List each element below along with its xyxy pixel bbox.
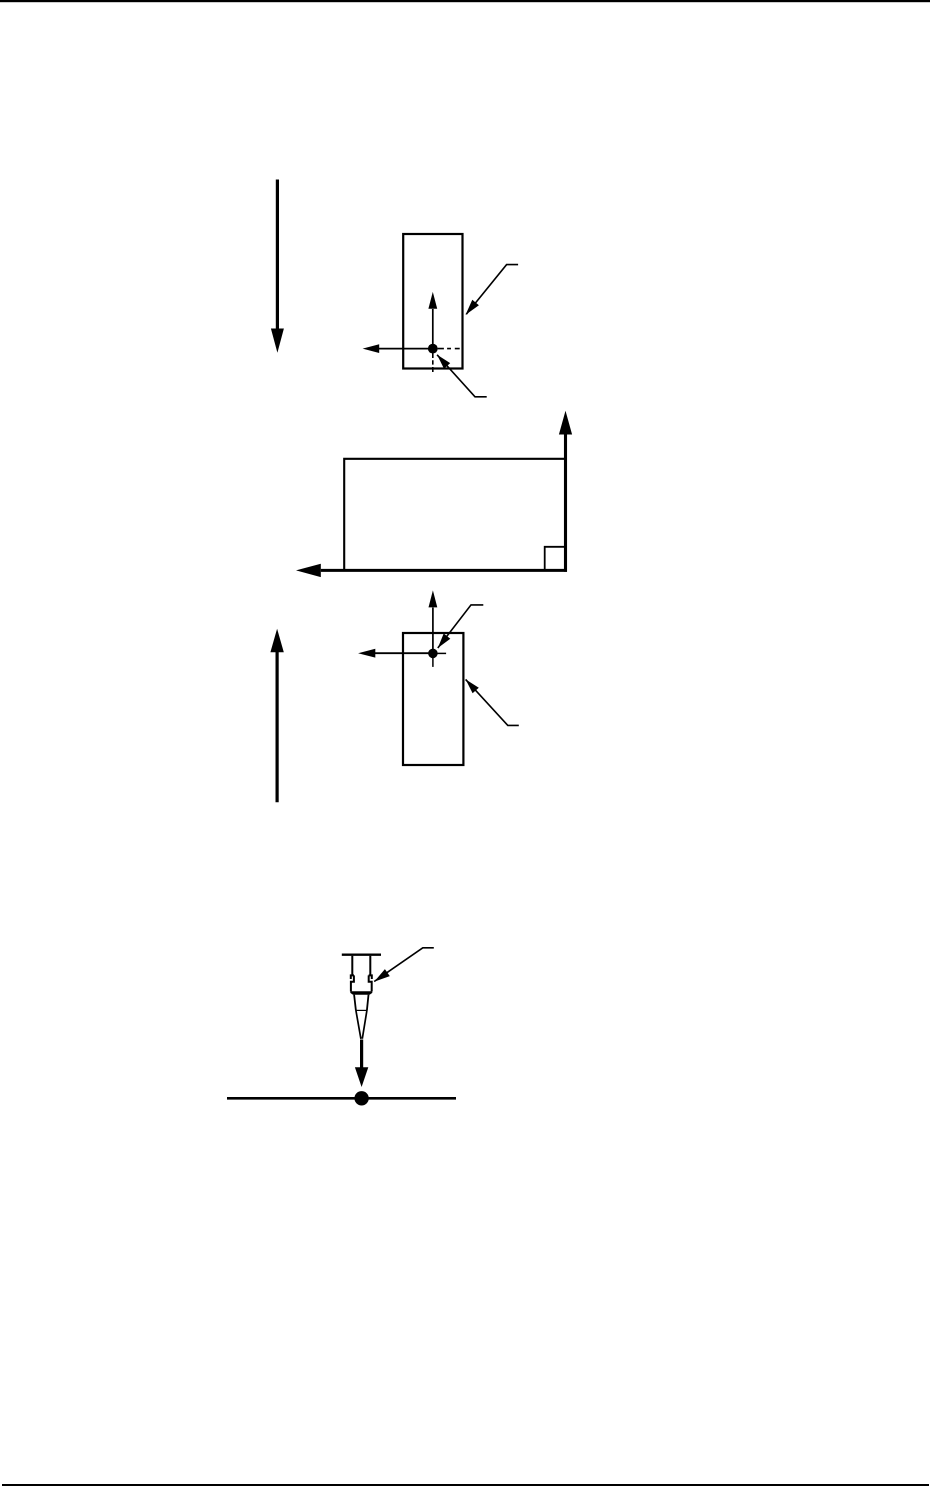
left axis arrow from mount point (upper, shaft) [379, 348, 433, 350]
board Y axis thick arrow (head) [559, 411, 572, 435]
mount point dot (lower diagram) [428, 649, 438, 659]
bottom border line [2, 1484, 929, 1486]
nozzle collar band [350, 991, 372, 994]
left axis arrow from mount point (lower, shaft) [375, 652, 433, 654]
nozzle flange [342, 954, 381, 956]
left axis arrow from mount point (lower, head) [358, 649, 375, 658]
component outline rectangle (upper diagram) [403, 234, 462, 369]
nozzle taper upper section [354, 995, 368, 1011]
up axis arrow from mount point (upper, shaft) [432, 309, 434, 349]
right-angle origin marker square [545, 547, 565, 570]
nozzle tip cone [356, 1010, 367, 1038]
leader line to component outline (lower) [466, 679, 519, 725]
board X axis thick arrow (head) [296, 564, 321, 577]
leader arrowhead to component outline (lower) [466, 679, 479, 693]
mount point dot (upper diagram) [428, 344, 438, 354]
leader arrowhead to component outline (upper) [466, 300, 479, 315]
nozzle taper cross line [356, 1009, 367, 1011]
board Y axis thick arrow (shaft / right edge) [564, 434, 567, 571]
board X axis thick arrow (shaft / bottom edge) [321, 569, 567, 572]
up axis arrow from mount point (lower, head) [429, 590, 438, 607]
nozzle body right wall with notch [369, 956, 372, 992]
leader line to component outline (upper) [466, 265, 518, 315]
leader arrowhead to mount point (lower) [438, 634, 451, 649]
dispense point dot [354, 1091, 368, 1105]
centerline right of dot (upper) [438, 348, 460, 350]
nozzle body left wall with notch [351, 956, 354, 992]
up axis arrow from mount point (lower, shaft) [432, 608, 434, 654]
downward feed arrow (shaft) [276, 180, 279, 331]
board surface line [227, 1097, 456, 1100]
dispense direction arrow (shaft) [360, 1040, 363, 1069]
centerline below dot (lower) [432, 653, 434, 667]
dispense direction arrow (head) [355, 1067, 368, 1087]
board outline thin edges (top and left) [344, 459, 565, 570]
upward feed arrow (head) [270, 629, 283, 653]
component outline rectangle (lower diagram) [403, 633, 463, 765]
centerline right of dot (lower) [433, 652, 446, 654]
leader arrowhead to mount point (upper) [437, 355, 450, 369]
upward feed arrow (shaft) [276, 652, 279, 803]
leader arrowhead to nozzle [374, 969, 390, 982]
up axis arrow from mount point (upper, head) [428, 292, 437, 309]
leader line to mount point (upper) [437, 355, 487, 397]
top border bar [0, 0, 930, 2]
leader line to nozzle [374, 948, 434, 982]
left axis arrow from mount point (upper, head) [363, 344, 380, 353]
downward feed arrow (head) [271, 329, 284, 353]
centerline below dot (upper) [432, 353, 434, 373]
leader line to mount point (lower) [438, 605, 484, 648]
